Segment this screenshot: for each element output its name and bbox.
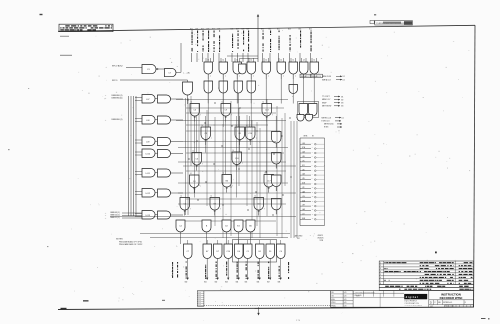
svg-text:L7E: L7E bbox=[302, 178, 305, 180]
svg-text:9-70: 9-70 bbox=[344, 296, 347, 298]
svg-text:B44: B44 bbox=[212, 28, 215, 30]
svg-text:453/473: 453/473 bbox=[318, 235, 324, 237]
svg-text:14: 14 bbox=[236, 60, 238, 62]
svg-text:9-70: 9-70 bbox=[344, 299, 347, 301]
svg-text:SME A CLK: SME A CLK bbox=[322, 78, 332, 81]
svg-text:1J2: 1J2 bbox=[343, 80, 345, 82]
svg-text:M7891-0-1: M7891-0-1 bbox=[443, 302, 452, 304]
svg-text:1J2: 1J2 bbox=[343, 76, 345, 78]
svg-text:BMB 11 (1): BMB 11 (1) bbox=[111, 217, 120, 219]
svg-text:B50: B50 bbox=[261, 28, 264, 30]
svg-text:B40: B40 bbox=[190, 28, 193, 30]
svg-text:SPCO BLK2: SPCO BLK2 bbox=[112, 65, 123, 67]
svg-text:D: D bbox=[430, 301, 432, 304]
svg-text:→: → bbox=[105, 66, 107, 69]
svg-text:B42: B42 bbox=[215, 282, 218, 284]
svg-text:METT/NOW: METT/NOW bbox=[322, 105, 332, 107]
svg-text:14: 14 bbox=[207, 60, 209, 62]
svg-text:(→ + LR): (→ + LR) bbox=[183, 73, 190, 75]
svg-text:B48: B48 bbox=[278, 282, 281, 284]
svg-text:B46: B46 bbox=[231, 28, 234, 30]
svg-text:ENG.: ENG. bbox=[331, 299, 335, 301]
svg-text:1J2: 1J2 bbox=[342, 118, 344, 120]
svg-text:MEM S CY: MEM S CY bbox=[322, 99, 331, 101]
svg-text:SPDF: SPDF bbox=[322, 102, 327, 104]
svg-text:671: 671 bbox=[341, 96, 344, 98]
svg-text:D3B: D3B bbox=[302, 200, 305, 202]
svg-text:SPCO: SPCO bbox=[112, 80, 118, 82]
svg-text:PROD.: PROD. bbox=[331, 305, 336, 307]
svg-text:PROJ.: PROJ. bbox=[331, 302, 336, 304]
svg-text:B51: B51 bbox=[269, 28, 272, 30]
svg-text:METR/LCLK: METR/LCLK bbox=[322, 117, 332, 119]
svg-text:→: → bbox=[105, 120, 107, 122]
svg-text:B41: B41 bbox=[204, 282, 207, 284]
svg-text:14: 14 bbox=[222, 60, 224, 62]
svg-text:B53: B53 bbox=[288, 28, 291, 30]
svg-text:B43: B43 bbox=[225, 282, 228, 284]
svg-text:←: ← bbox=[171, 271, 173, 273]
svg-text:B41: B41 bbox=[196, 28, 199, 30]
svg-text:B47: B47 bbox=[267, 282, 270, 284]
svg-text:B47: B47 bbox=[236, 28, 239, 30]
svg-text:NOTES:: NOTES: bbox=[116, 238, 124, 240]
svg-text:1: 1 bbox=[380, 262, 381, 264]
svg-text:E Q U I P M E N T: E Q U I P M E N T bbox=[405, 301, 417, 303]
svg-text:9-70: 9-70 bbox=[344, 305, 347, 307]
svg-text:2: 2 bbox=[380, 265, 381, 267]
svg-text:D2B: D2B bbox=[302, 183, 305, 185]
svg-text:5: 5 bbox=[380, 274, 381, 276]
svg-text:FIRST USED ON OPTION/MODEL: FIRST USED ON OPTION/MODEL bbox=[355, 292, 375, 294]
svg-text:E MG: E MG bbox=[324, 127, 329, 129]
svg-text:D21: D21 bbox=[302, 165, 305, 167]
svg-text:TT CON'T: TT CON'T bbox=[322, 96, 330, 98]
svg-text:DMB/GN5 (0): DMB/GN5 (0) bbox=[112, 97, 123, 99]
svg-text:B46: B46 bbox=[257, 282, 260, 284]
svg-text:B52: B52 bbox=[277, 28, 280, 30]
svg-text:L7H: L7H bbox=[302, 205, 305, 207]
svg-text:6: 6 bbox=[380, 277, 381, 279]
svg-text:B49: B49 bbox=[247, 28, 250, 30]
svg-text:d i g i t a l: d i g i t a l bbox=[406, 295, 418, 299]
svg-text:B48: B48 bbox=[242, 28, 245, 30]
svg-text:672: 672 bbox=[341, 99, 344, 101]
svg-text:673: 673 bbox=[341, 103, 344, 105]
svg-text:14: 14 bbox=[280, 60, 282, 62]
svg-text:M 1 1 1 1 1 1: M 1 1 1 1 1 1 bbox=[446, 306, 455, 308]
svg-text:B40: B40 bbox=[185, 282, 188, 284]
svg-text:E MG CLK: E MG CLK bbox=[322, 121, 331, 123]
svg-text:L7F: L7F bbox=[302, 187, 305, 189]
svg-text:474: 474 bbox=[297, 238, 300, 240]
svg-text:METR/CLK6: METR/CLK6 bbox=[324, 124, 334, 126]
svg-text:←: ← bbox=[171, 275, 173, 277]
svg-text:W23/475: W23/475 bbox=[318, 237, 324, 239]
svg-text:→: → bbox=[105, 98, 107, 100]
svg-text:3: 3 bbox=[380, 268, 381, 270]
svg-text:B43: B43 bbox=[207, 28, 210, 30]
svg-text:DECODER WTBI: DECODER WTBI bbox=[440, 296, 463, 300]
svg-text:L1B: L1B bbox=[302, 156, 305, 158]
svg-text:C 7 4: C 7 4 bbox=[296, 320, 300, 322]
svg-text:L7J: L7J bbox=[302, 214, 305, 216]
svg-text:B42: B42 bbox=[201, 28, 204, 30]
svg-text:7: 7 bbox=[380, 280, 381, 282]
svg-text:4: 4 bbox=[380, 271, 381, 273]
svg-text:674: 674 bbox=[341, 106, 344, 108]
svg-text:9-70: 9-70 bbox=[344, 302, 347, 304]
svg-text:B55: B55 bbox=[309, 28, 312, 30]
svg-text:B44: B44 bbox=[236, 282, 239, 284]
svg-text:14: 14 bbox=[313, 60, 315, 62]
svg-text:D4B: D4B bbox=[302, 218, 305, 220]
svg-text:B45: B45 bbox=[245, 282, 248, 284]
svg-text:MEM CLKB: MEM CLKB bbox=[322, 76, 332, 78]
svg-text:14: 14 bbox=[292, 60, 294, 62]
svg-text:→: → bbox=[105, 218, 107, 220]
svg-text:14: 14 bbox=[303, 60, 305, 62]
svg-text:15/76: 15/76 bbox=[356, 296, 360, 298]
svg-text:14: 14 bbox=[265, 60, 267, 62]
svg-text:B45: B45 bbox=[218, 28, 221, 30]
svg-text:→: → bbox=[105, 80, 107, 82]
svg-text:14: 14 bbox=[250, 60, 252, 62]
svg-text:9-70: 9-70 bbox=[344, 292, 347, 294]
svg-text:DMB/GN5 (1): DMB/GN5 (1) bbox=[112, 119, 123, 121]
svg-text:B54: B54 bbox=[299, 28, 302, 30]
